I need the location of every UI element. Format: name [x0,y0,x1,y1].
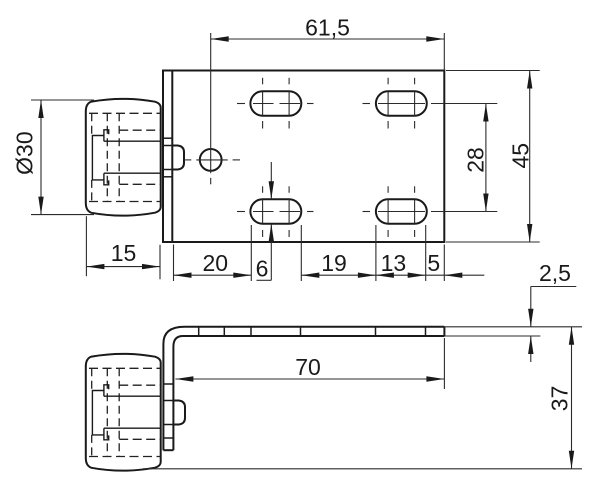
svg-text:6: 6 [256,256,269,282]
flange top edge [185,326,445,328]
dimension line 61,5 [211,38,445,40]
slot hole top-left [250,91,301,115]
svg-text:Ø30: Ø30 [12,131,38,174]
axle tab slot lower line 2 [163,176,172,178]
roller (side view, reused) [86,354,161,471]
extension line right [159,245,161,279]
label shelf line 6 [257,279,272,281]
dimension line 28 [485,104,487,212]
extension line slot2 left [375,225,377,281]
extension line right [443,33,445,71]
svg-text:28: 28 [463,147,489,173]
roller outline (top view) [86,99,161,216]
extension line slot right [300,225,302,281]
flange end cap [443,327,445,336]
dimension line 37 [571,327,573,469]
hole edge tick on flange [425,327,427,336]
plate outline (top view) [163,71,444,243]
arrow line above slot [270,162,272,199]
hole edge tick on flange [300,327,302,336]
dimension line 70 [175,378,444,380]
extension of flange bottom edge [444,335,540,337]
axle boss (top view) [172,146,184,170]
extension line plate right [443,245,445,282]
svg-text:15: 15 [111,240,137,266]
extension of flange top edge [444,326,582,328]
slot centerlines (dash-dot) [237,78,497,237]
hole edge tick on flange [375,327,377,336]
extension line at bend [173,245,175,282]
bend line of bracket [171,71,173,243]
extension line bottom of roller [31,214,94,216]
dimension line 15 [86,266,160,268]
axle tab slot upper line 1 [163,137,172,139]
dimension line 5 [426,274,445,276]
leg outer edge with bend [163,327,184,450]
dimension line Ø30 [40,100,42,215]
hole centerline horizontal [184,160,240,184]
extension line left [85,216,87,276]
leg inner edge with bend [173,336,183,450]
extension line at flange end [443,338,445,389]
extension line slot left [250,225,252,281]
arrow line below slot to label [270,224,272,281]
svg-text:2,5: 2,5 [539,260,571,286]
leg tab line [163,383,173,385]
svg-text:13: 13 [381,250,407,276]
leg tab line [163,400,173,402]
extension line top of roller [31,99,94,101]
arrow line above flange [530,287,532,327]
flange bottom edge [183,335,444,337]
svg-text:45: 45 [508,143,534,169]
svg-text:5: 5 [427,250,440,276]
extension line bottom [446,241,540,243]
extension line through hole center [210,33,212,173]
dimension line 20 [174,274,252,276]
hole edge tick on flange [198,327,200,336]
svg-text:19: 19 [321,250,347,276]
leg tab line [163,437,173,439]
slot hole bottom-right [376,199,427,223]
axle tab slot lower line 1 [163,169,172,171]
hole edge tick on flange [223,327,225,336]
arrow line below flange [530,336,532,362]
svg-text:37: 37 [546,386,572,412]
label shelf line 2,5 [531,286,577,288]
leg bottom end [163,449,173,451]
hole edge tick on flange [250,327,252,336]
extension line top [446,70,540,72]
leg tab line [163,424,173,426]
round hole [200,149,222,171]
svg-text:20: 20 [203,250,229,276]
dimension line 13 [376,274,426,276]
arrow tail line 5 [444,274,484,276]
svg-text:70: 70 [295,354,321,380]
svg-text:61,5: 61,5 [305,15,350,41]
rail line [143,468,582,470]
axle boss (side view) [173,401,185,425]
slot hole top-right [376,91,427,115]
roller hidden hub lines (dashed) [89,113,160,201]
axle tab slot upper line 2 [163,145,172,147]
dimension line 45 [529,71,531,243]
dimension line 19 [301,274,376,276]
extension line slot2 right [425,225,427,281]
roller axle clip (solid hidden detail) [92,130,160,185]
slot hole bottom-left [250,199,301,223]
